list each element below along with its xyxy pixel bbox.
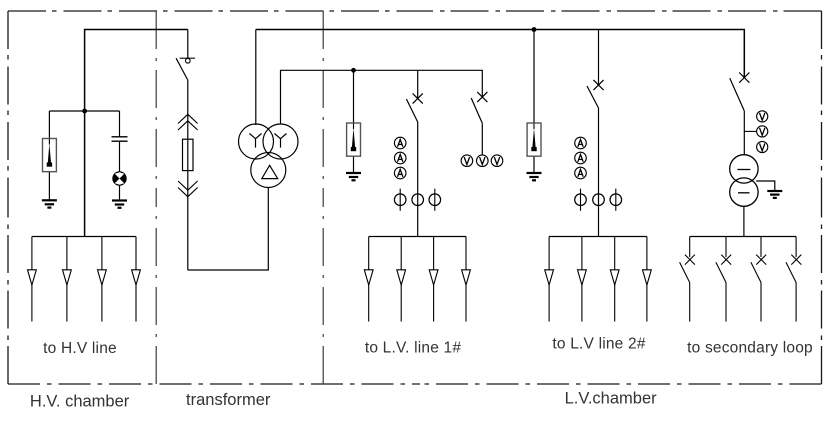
breaker S2: [716, 237, 731, 322]
divider H.V./transformer: [155, 11, 157, 384]
capacitor C1: [112, 137, 128, 141]
feeder bar secondary: [690, 236, 796, 238]
breaker QF4: [730, 73, 750, 111]
plug-in contact lower chevrons: [178, 181, 198, 197]
breaker QF1 lower lead: [417, 122, 419, 237]
wire L.V.2 drop 3: [614, 237, 616, 322]
CT TA2 left: [575, 189, 587, 211]
svg-text:transformer: transformer: [186, 391, 271, 409]
arrow L.V.1 drop 2: [397, 270, 406, 285]
breaker S4: [786, 237, 801, 322]
breaker QF2: [471, 92, 487, 123]
wire arrester FV2 lead: [353, 70, 355, 173]
ammeter A3: [394, 167, 406, 179]
wire H.V. feeder drop 3: [101, 237, 103, 322]
ammeter A4: [575, 137, 587, 149]
ammeter A2: [394, 152, 406, 164]
CT TA1 middle: [412, 194, 424, 206]
breaker QF1 upper lead: [417, 70, 419, 98]
arrow L.V.1 drop 1: [364, 270, 373, 285]
border top: [8, 10, 822, 12]
svg-text:to secondary loop: to secondary loop: [687, 339, 813, 356]
voltmeter V4: [757, 111, 768, 122]
surge arrester FV3: [527, 123, 541, 156]
svg-text:L.V.chamber: L.V.chamber: [565, 389, 658, 407]
border left: [7, 11, 9, 384]
wire T2 to bar: [743, 206, 745, 236]
ground below FV3: [527, 173, 542, 180]
wire transformer HV lead: [255, 30, 257, 126]
transformer T1: [239, 124, 299, 188]
winding symbol Y left: [250, 134, 262, 148]
ammeter A5: [575, 152, 587, 164]
svg-text:to L.V line 2#: to L.V line 2#: [552, 336, 645, 353]
wire L.V.1 drop 2: [400, 237, 402, 322]
feeder bar L.V. 1: [369, 236, 466, 238]
node junction dot H.V.: [82, 109, 87, 114]
wire voltmeter connector: [744, 130, 756, 132]
CT TA1 left: [394, 189, 406, 211]
wire H.V. feeder drop 1: [31, 237, 33, 322]
ground below FV1: [42, 200, 57, 207]
voltmeter V5: [757, 126, 768, 137]
wire L.V.1 drop 3: [433, 237, 435, 322]
voltmeter V1: [461, 155, 473, 167]
wire H.V. feeder drop 4: [135, 237, 137, 322]
surge arrester FV2: [347, 123, 361, 156]
arrow L.V.2 drop 3: [610, 270, 619, 285]
feeder bar H.V.: [32, 236, 136, 238]
CT TA2 middle: [593, 194, 605, 206]
lamp HL1: [113, 172, 126, 185]
arrow L.V.1 drop 3: [429, 270, 438, 285]
wire QS1 to fuse: [187, 79, 189, 270]
node junction dot bus: [532, 27, 537, 32]
arrow L.V.2 drop 1: [545, 270, 554, 285]
arrow H.V. drop 1: [28, 270, 37, 285]
ammeter A1: [394, 137, 406, 149]
breaker QF3 lower lead: [598, 108, 600, 237]
breaker QF4 lower lead: [743, 111, 745, 155]
wire L.V.1 drop 4: [465, 237, 467, 322]
voltmeter V2: [477, 155, 489, 167]
wire L.V.2 drop 2: [581, 237, 583, 322]
arrow H.V. drop 3: [98, 270, 107, 285]
winding symbol delta: [262, 165, 278, 178]
wire arrester FV3 lead: [533, 30, 535, 173]
node junction dot link wire: [351, 68, 356, 73]
wire corner to transformer delta lead: [188, 188, 268, 270]
breaker S3: [751, 237, 766, 322]
svg-text:to L.V. line 1#: to L.V. line 1#: [365, 340, 462, 357]
wire H.V. branch horizontal: [49, 110, 119, 112]
divider transformer/L.V.: [322, 11, 324, 384]
breaker QF3: [587, 80, 604, 108]
wire capacitor to lamp: [119, 141, 121, 172]
wire transformer LV lead + link wire: [281, 70, 483, 124]
arrow L.V.1 drop 4: [462, 270, 471, 285]
ground below FV2: [346, 173, 361, 180]
earthing transformer T2: [730, 155, 758, 207]
arrow H.V. drop 2: [63, 270, 72, 285]
svg-text:H.V. chamber: H.V. chamber: [30, 393, 130, 411]
breaker QF2 lower lead: [481, 123, 483, 155]
wire L.V. bus (top): [256, 30, 745, 78]
svg-text:to H.V line: to H.V line: [43, 340, 117, 357]
wire arrester FV1 lead: [48, 111, 50, 200]
wire L.V.2 drop 4: [646, 237, 648, 322]
ground T2: [767, 191, 782, 198]
arrow H.V. drop 4: [132, 270, 141, 285]
fuse FU1: [183, 139, 194, 170]
breaker QF1: [406, 93, 422, 122]
surge arrester FV1: [43, 139, 57, 172]
border bottom: [8, 383, 822, 385]
wire capacitor lead: [119, 111, 121, 137]
wire lamp to ground: [119, 185, 121, 200]
plug-in contact upper chevrons: [178, 114, 198, 130]
arrow L.V.2 drop 4: [643, 270, 652, 285]
arrow L.V.2 drop 2: [578, 270, 587, 285]
wire T2 ground branch: [756, 181, 775, 191]
wire H.V. feeder drop 2: [66, 237, 68, 322]
CT TA1 right: [429, 189, 441, 211]
border right: [821, 11, 823, 384]
disconnector QS1: [176, 58, 195, 79]
feeder bar L.V. 2: [549, 236, 647, 238]
disconnector QS1 lead: [187, 30, 189, 59]
wire L.V.2 drop 1: [548, 237, 550, 322]
ground below lamp: [112, 201, 127, 208]
breaker S1: [680, 237, 695, 322]
voltmeter V3: [491, 155, 503, 167]
ammeter A6: [575, 167, 587, 179]
CT TA2 right: [610, 189, 622, 211]
voltmeter V6: [757, 141, 768, 152]
wire H.V. bus: [85, 30, 188, 237]
winding symbol Y right: [275, 134, 287, 148]
breaker QF3 upper lead: [598, 30, 600, 86]
wire L.V.1 drop 1: [368, 237, 370, 322]
